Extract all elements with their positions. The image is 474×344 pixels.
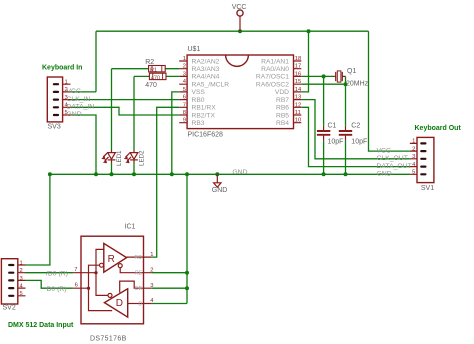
- svg-text:RB1/RX: RB1/RX: [192, 105, 217, 112]
- svg-text:RB3: RB3: [192, 120, 205, 127]
- IC1 internal wiring: [81, 249, 144, 310]
- svg-text:VCC: VCC: [67, 88, 81, 95]
- svg-text:RB0: RB0: [192, 97, 205, 104]
- U$1 right pin numbers: [295, 56, 302, 124]
- wire C2 vertical: [345, 84, 347, 174]
- wire VSS to GND: [172, 92, 179, 174]
- svg-text:RO: RO: [135, 255, 143, 261]
- svg-text:SV2: SV2: [3, 305, 16, 312]
- svg-text:3: 3: [150, 283, 153, 289]
- svg-text:10: 10: [295, 118, 301, 124]
- LED2: [124, 150, 146, 166]
- wire DATA_IN: [71, 107, 180, 115]
- svg-text:RA7/OSC1: RA7/OSC1: [256, 74, 289, 81]
- svg-text:D: D: [116, 298, 123, 309]
- svg-text:DE: DE: [135, 286, 143, 292]
- svg-text:GND: GND: [212, 187, 228, 194]
- resistor R1: [145, 73, 166, 89]
- wire LED2 cathode: [133, 162, 135, 174]
- svg-text:3: 3: [183, 71, 186, 77]
- svg-text:20MHz: 20MHz: [346, 81, 369, 88]
- wire GND rail: [50, 173, 410, 175]
- svg-text:5: 5: [183, 87, 186, 93]
- wire C1 vertical: [323, 76, 325, 174]
- wire OSC2 to C2: [301, 76, 345, 84]
- U$1 left pin stubs: [179, 61, 187, 123]
- U$1 left pin numbers: [183, 56, 187, 124]
- svg-text:CLK_IN: CLK_IN: [67, 96, 91, 103]
- wire OSC1 to crystal: [301, 75, 334, 77]
- svg-text:D0 (R): D0 (R): [47, 286, 67, 293]
- wire RO to RB1/RX: [152, 107, 180, 257]
- SV1 pin numbers: [412, 139, 416, 176]
- IC1 pin numbers: [74, 252, 154, 304]
- crystal Q1: [334, 68, 368, 88]
- node GND sv3 junction: [94, 172, 98, 176]
- svg-text:15: 15: [295, 79, 301, 85]
- svg-text:R: R: [108, 254, 115, 265]
- svg-text:5: 5: [20, 291, 23, 297]
- svg-text:SV3: SV3: [48, 123, 61, 130]
- svg-text:RA2/AN2: RA2/AN2: [192, 58, 220, 65]
- svg-text:RB5: RB5: [276, 112, 289, 119]
- IC1 inner pin names: [135, 255, 143, 308]
- svg-text:DMX 512 Data Input: DMX 512 Data Input: [8, 322, 74, 329]
- svg-text:DS75176B: DS75176B: [90, 335, 127, 342]
- SV3 pin numbers: [65, 79, 69, 116]
- svg-text:9: 9: [183, 118, 186, 124]
- wire CLK_IN: [71, 99, 180, 101]
- node VCC junction: [238, 29, 242, 33]
- svg-text:14: 14: [295, 87, 302, 93]
- svg-text:U$1: U$1: [188, 46, 201, 53]
- wire resistor R2 net: [112, 69, 180, 151]
- wire VCC rail: [96, 30, 369, 32]
- U$1 right pin names: [256, 58, 289, 127]
- ground symbol: [212, 172, 228, 194]
- svg-text:Q1: Q1: [347, 68, 356, 75]
- svg-text:C2: C2: [351, 122, 360, 129]
- wire IC1 RE DE DI to GND: [152, 174, 187, 303]
- svg-text:5: 5: [412, 170, 415, 176]
- svg-text:RA5_/MCLR: RA5_/MCLR: [192, 82, 230, 89]
- IC1 driver triangle: [104, 289, 127, 317]
- svg-text:VCC: VCC: [232, 4, 247, 11]
- capacitor C2: [339, 122, 367, 145]
- svg-text:470: 470: [145, 82, 157, 89]
- wire SV2 pin2 to IC1 pin7: [26, 272, 74, 274]
- svg-text:D: D: [138, 302, 142, 308]
- svg-text:RA6/OSC2: RA6/OSC2: [256, 82, 289, 89]
- svg-text:/D0 (R): /D0 (R): [46, 270, 68, 277]
- wire RB7 to CLK_OUT: [301, 100, 410, 159]
- svg-text:R2: R2: [145, 59, 154, 66]
- wire RB6 to DATA_OUT: [301, 107, 410, 166]
- svg-text:6: 6: [75, 283, 78, 289]
- svg-text:2: 2: [412, 146, 415, 152]
- capacitor C1: [317, 122, 344, 145]
- svg-text:DATA_IN: DATA_IN: [67, 104, 95, 111]
- svg-text:RB6: RB6: [276, 105, 289, 112]
- op-amp U$1 PIC16F628: [187, 46, 293, 139]
- svg-text:2: 2: [20, 268, 23, 274]
- svg-text:GND: GND: [232, 169, 247, 176]
- connector SV2: [1, 259, 25, 312]
- svg-text:RB7: RB7: [276, 97, 289, 104]
- wire VDD from VCC rail: [301, 31, 308, 92]
- svg-text:RB2/TX: RB2/TX: [192, 112, 216, 119]
- transceiver IC1 DS75176B: [81, 224, 144, 343]
- svg-text:RA1/AN1: RA1/AN1: [261, 58, 289, 65]
- svg-text:8: 8: [183, 110, 186, 116]
- wire LED1 cathode: [111, 162, 113, 174]
- svg-text:RA0/AN0: RA0/AN0: [261, 66, 289, 73]
- node labels keyboard in: [67, 88, 95, 118]
- svg-text:CLK_OUT: CLK_OUT: [377, 155, 408, 162]
- svg-text:16: 16: [295, 71, 301, 77]
- wire GND from SV3: [71, 115, 97, 174]
- svg-text:3: 3: [20, 276, 23, 282]
- IC1 pin stubs: [73, 273, 81, 289]
- svg-text:Keyboard Out: Keyboard Out: [415, 125, 462, 132]
- wire SV2 pin1 to GND: [26, 174, 50, 265]
- svg-text:12: 12: [295, 102, 301, 108]
- svg-text:RB4: RB4: [276, 120, 289, 127]
- svg-text:2: 2: [183, 64, 186, 70]
- svg-text:1: 1: [65, 79, 68, 85]
- connector SV1: [410, 137, 434, 191]
- U$1 right pin stubs: [294, 61, 302, 123]
- svg-text:2: 2: [150, 267, 153, 273]
- svg-text:RE: RE: [135, 271, 143, 277]
- svg-text:DATA_OUT: DATA_OUT: [377, 163, 412, 170]
- IC1 receiver triangle: [100, 243, 127, 272]
- svg-text:10pF: 10pF: [328, 139, 344, 146]
- svg-text:IC1: IC1: [125, 224, 136, 231]
- svg-text:SV1: SV1: [421, 185, 434, 192]
- node labels keyboard out: [377, 147, 412, 177]
- svg-text:17: 17: [295, 64, 301, 70]
- svg-text:RA3/AN3: RA3/AN3: [192, 66, 220, 73]
- LED1: [101, 150, 123, 166]
- svg-text:LED2: LED2: [138, 150, 145, 166]
- svg-text:1: 1: [412, 139, 415, 145]
- wire VCC to SV3 pin2: [71, 31, 97, 92]
- svg-text:Keyboard In: Keyboard In: [42, 64, 82, 71]
- wire VCC to SV1: [369, 31, 410, 151]
- node VDD junction: [307, 29, 311, 33]
- svg-text:11: 11: [295, 110, 301, 116]
- svg-text:1: 1: [183, 56, 186, 62]
- wire SV2 pin3 to IC1 pin6: [26, 280, 74, 288]
- svg-text:1: 1: [20, 260, 23, 266]
- svg-text:10pF: 10pF: [351, 139, 367, 146]
- power VCC symbol: [232, 4, 247, 31]
- svg-text:3: 3: [412, 154, 415, 160]
- connector SV3: [47, 77, 70, 130]
- svg-text:C1: C1: [328, 122, 337, 129]
- resistor R2: [145, 59, 165, 74]
- svg-text:6: 6: [183, 95, 186, 101]
- svg-text:RA4/AN4: RA4/AN4: [192, 74, 220, 81]
- svg-text:VSS: VSS: [192, 89, 206, 96]
- svg-text:PIC16F628: PIC16F628: [188, 132, 224, 139]
- svg-text:18: 18: [295, 56, 301, 62]
- U$1 left pin names: [192, 58, 230, 127]
- svg-text:7: 7: [74, 267, 77, 273]
- svg-text:GND: GND: [67, 111, 82, 118]
- svg-text:7: 7: [183, 102, 186, 108]
- svg-text:13: 13: [295, 95, 301, 101]
- svg-text:VDD: VDD: [275, 89, 289, 96]
- svg-text:1: 1: [150, 252, 153, 258]
- SV2 pin numbers: [20, 260, 24, 297]
- svg-text:470: 470: [151, 75, 160, 81]
- svg-text:VCC: VCC: [377, 147, 391, 154]
- wire resistor R1 net: [134, 76, 179, 150]
- svg-text:GND: GND: [377, 171, 392, 178]
- svg-text:LED1: LED1: [116, 150, 123, 166]
